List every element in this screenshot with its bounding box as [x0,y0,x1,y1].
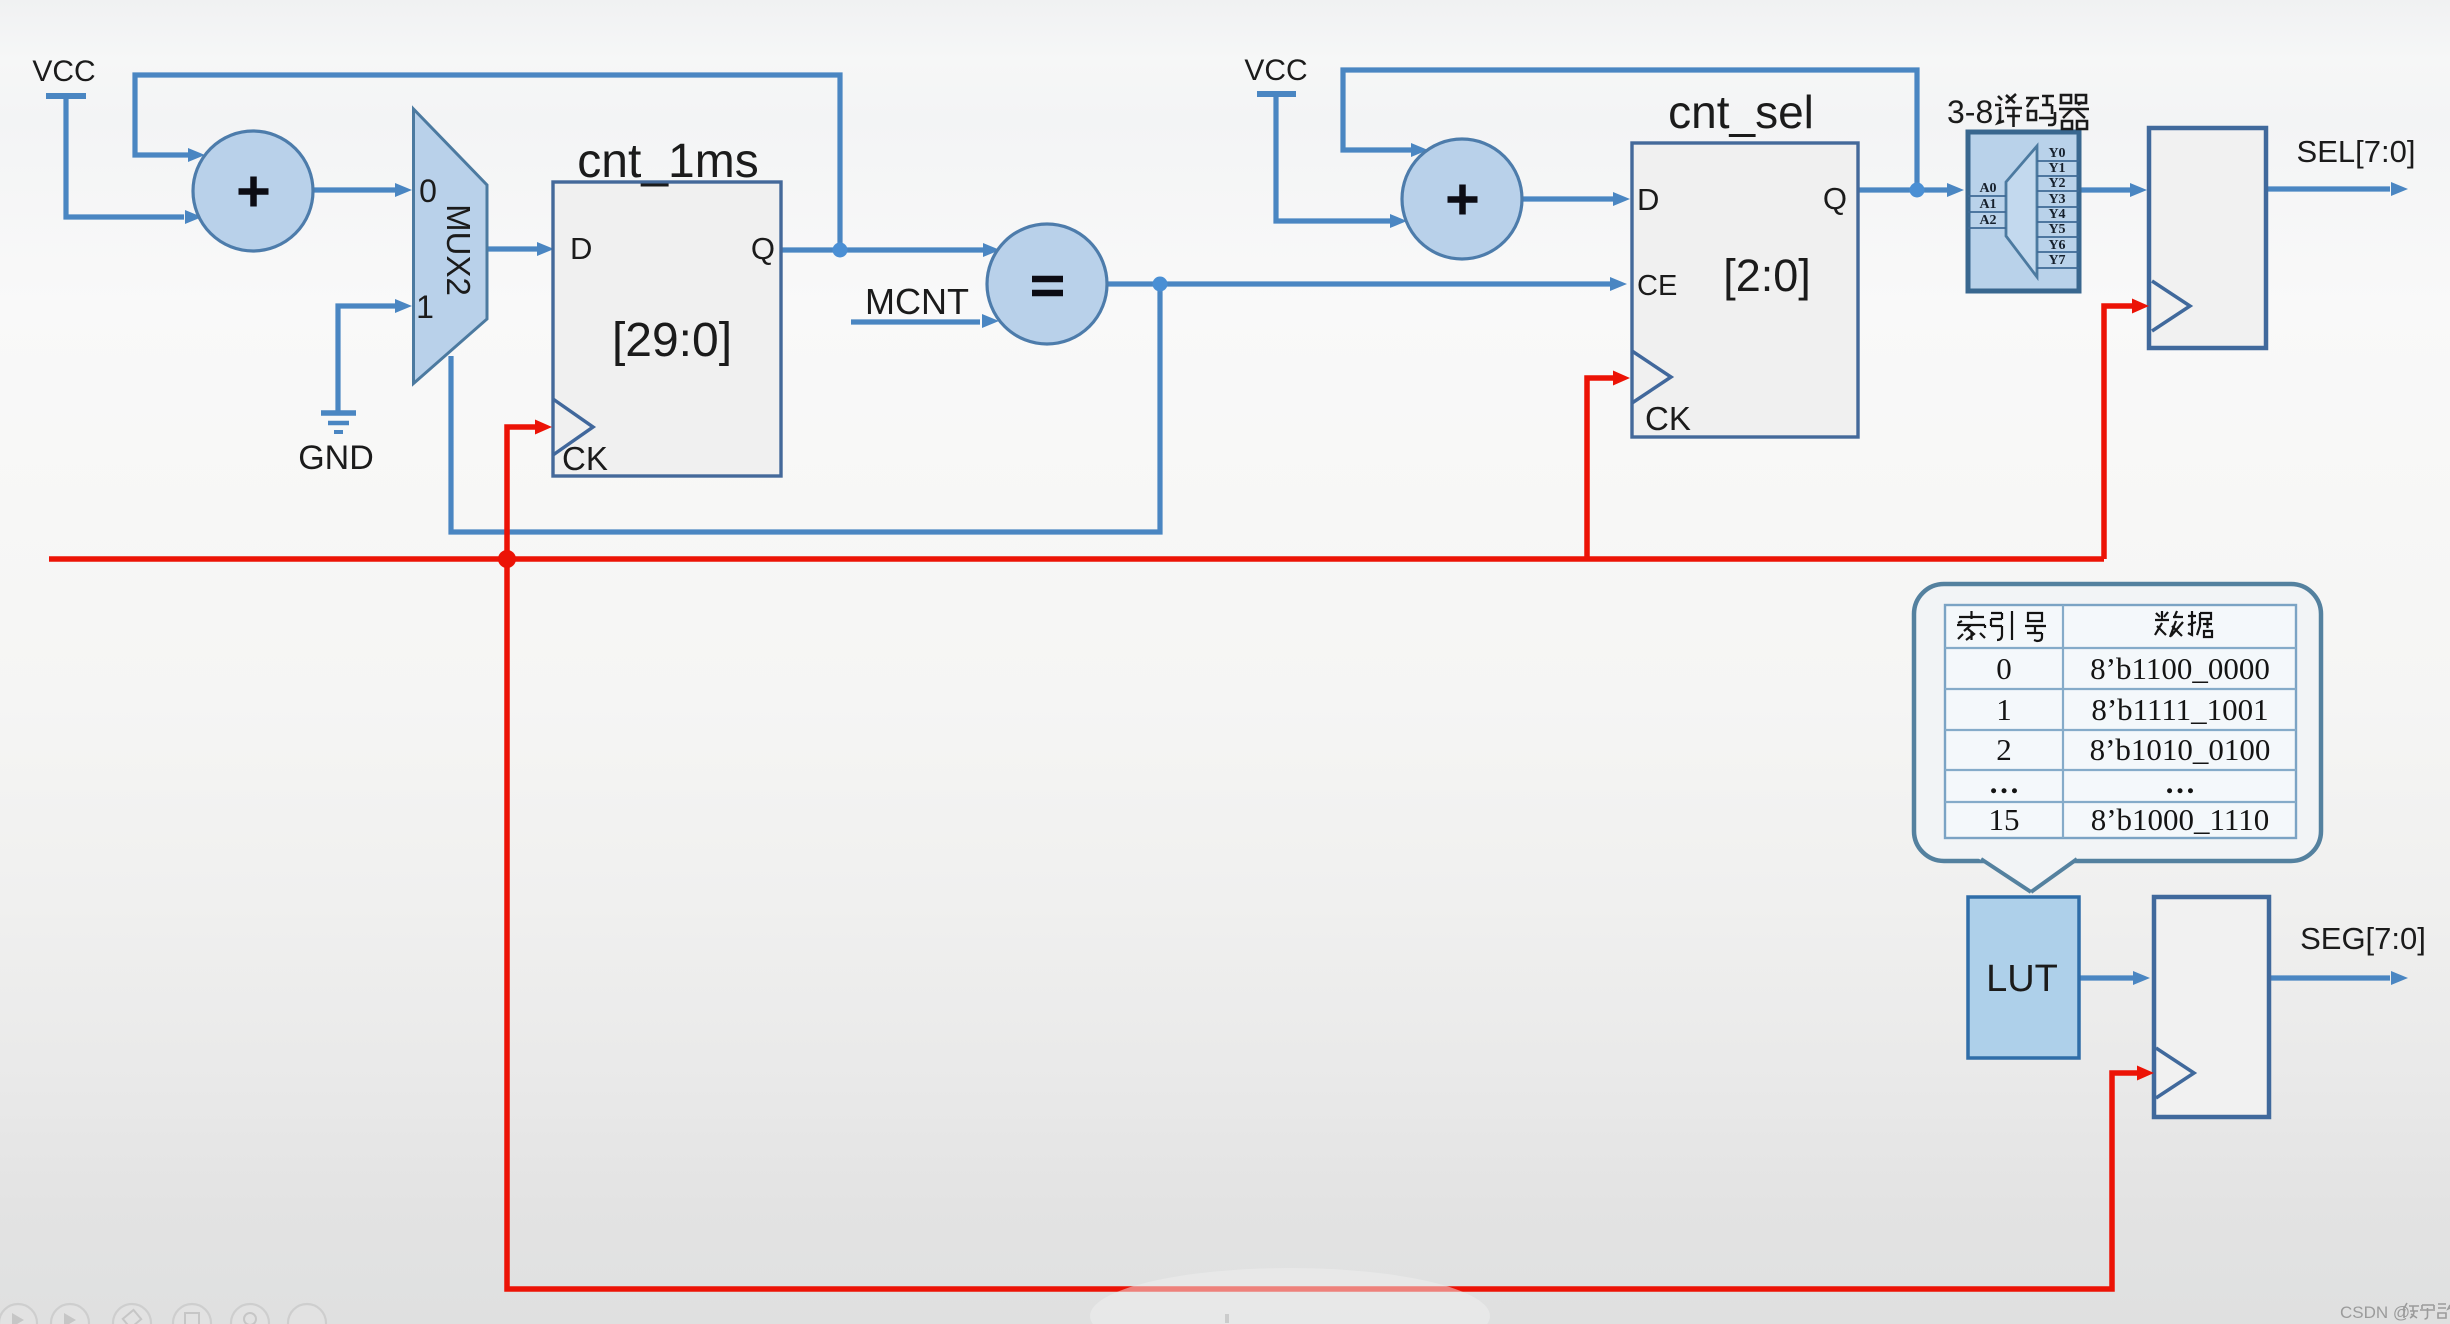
table data rows [1989,651,2271,837]
wire MCNT into comparator [851,319,980,324]
svg-text:CE: CE [1637,270,1677,302]
arrowhead into 3-8 decoder [1947,183,1964,197]
wire clock bottom loop to SEG register CK [507,559,2137,1289]
svg-text:VCC: VCC [1244,54,1307,87]
svg-text:8’b1100_0000: 8’b1100_0000 [2090,651,2270,686]
svg-text:SEG[7:0]: SEG[7:0] [2300,921,2426,956]
lookup table inside bubble [1945,605,2296,838]
svg-text:Q: Q [751,231,775,266]
adder A1 [193,131,313,251]
svg-text:CSDN @: CSDN @ [2340,1303,2410,1322]
svg-text:A2: A2 [1979,213,1996,228]
svg-text:[2:0]: [2:0] [1723,250,1811,301]
wire Q of cnt_sel to 3-8 decoder input [1858,187,1947,192]
svg-text:D: D [570,231,592,266]
arrowhead into adder A1 upper input [188,148,205,162]
svg-text:Y2: Y2 [2048,176,2065,191]
arrowhead into CK of SEG register [2137,1066,2154,1081]
hanzi yu3 (watermark) [2420,1305,2435,1319]
wire SEG register output [2269,975,2390,980]
svg-text:…: … [2165,765,2196,800]
junction node on comparator output [1153,277,1168,292]
svg-text:D: D [1637,182,1659,217]
svg-text:Y7: Y7 [2048,253,2065,268]
svg-text:MUX2: MUX2 [440,204,477,296]
clock wedge of SEL register [2152,281,2190,331]
arrowhead into CK of SEL register [2132,299,2149,314]
junction node on clock bus [498,550,516,568]
arrowhead MCNT into comparator lower input [982,314,999,328]
ground GND [298,413,374,477]
svg-text:cnt_sel: cnt_sel [1668,86,1814,138]
arrowhead into SEG register [2133,971,2150,985]
decoder 3-8 box [1968,132,2079,291]
wire feedback net: Q of cnt_sel up over top to adder A2 upper input [1343,70,1917,190]
wire comparator output to CE of cnt_sel [1107,281,1610,286]
svg-text:2: 2 [1996,732,2012,767]
decoder input pin lines A0 A1 A2 [1968,195,2006,197]
register SEL output [2149,128,2266,348]
hanzi yun4 (watermark) [2438,1304,2450,1318]
adder A2 [1402,139,1522,259]
arrowhead into MUX2 input 0 [395,183,412,197]
arrowhead into SEL register [2130,183,2147,197]
svg-text:CK: CK [562,440,608,477]
pin labels Y0-Y7 [2048,146,2065,268]
arrowhead SEG[7:0] output [2391,971,2408,985]
junction node on Q of cnt_sel [1910,183,1925,198]
svg-text:A0: A0 [1979,181,1996,196]
svg-text:Y6: Y6 [2048,238,2065,253]
svg-text:GND: GND [298,439,374,477]
power symbol VCC2 [1244,54,1307,94]
register cnt_sel [1632,86,1858,437]
svg-text:VCC: VCC [32,55,95,88]
hanzi yi4 (translate) [1995,94,2022,127]
arrowhead into D of cnt_1ms [537,242,554,256]
wire clock branch to cnt_sel CK [1587,378,1613,559]
svg-text:1: 1 [1996,692,2012,727]
svg-text:8’b1000_1110: 8’b1000_1110 [2091,802,2270,837]
wire VCC1 to adder A1 lower input [66,96,184,217]
svg-text:cnt_1ms: cnt_1ms [577,135,758,188]
wire adder A2 output to D of cnt_sel [1522,196,1613,201]
LUT block [1968,897,2079,1058]
callout bubble [1914,584,2321,892]
player control icons [0,1304,326,1324]
hanzi yi1 (watermark) [2403,1303,2419,1318]
wire clock branch to cnt_1ms CK [507,427,535,559]
arrowhead into D of cnt_sel [1613,192,1630,206]
svg-text:MCNT: MCNT [865,281,969,322]
arrowhead into comparator upper input [983,243,1000,257]
svg-text:…: … [1989,765,2020,800]
wire MUX2 output to D of cnt_1ms [488,246,538,251]
page mark [1225,1314,1229,1323]
wire adder A1 output to MUX2 input 0 [313,187,396,192]
svg-text:Y0: Y0 [2048,146,2065,161]
svg-text:3-8: 3-8 [1947,94,1993,130]
comparator = [987,224,1107,344]
hanzi qi4 (device) [2059,95,2089,129]
svg-text:Y1: Y1 [2048,161,2065,176]
svg-text:8’b1010_0100: 8’b1010_0100 [2090,732,2271,767]
label 3-8 decoder title [1947,94,2089,130]
register SEG output [2154,897,2269,1117]
svg-text:0: 0 [419,173,437,209]
wire Q of cnt_1ms to comparator input [781,247,985,252]
wire 3-8 decoder output to SEL register [2079,187,2131,192]
decoder inner trapezoid [2006,146,2037,277]
wire LUT output to SEG register [2079,975,2134,980]
wire SEL register output [2266,186,2390,191]
header hanzi shu4-ju4 (data) [2155,611,2212,637]
wire feedback net: Q of cnt_1ms up over top to adder A1 upper input [135,75,840,251]
header hanzi suo3-yin3-hao4 (index) [1957,611,2046,641]
watermark CSDN [2340,1303,2450,1322]
clock wedge of cnt_1ms [553,399,593,455]
decorative swirl [1090,1268,1490,1324]
svg-text:Y4: Y4 [2048,207,2065,222]
svg-text:A1: A1 [1979,197,1996,212]
svg-text:Y5: Y5 [2048,222,2065,237]
svg-text:[29:0]: [29:0] [612,314,732,367]
wire VCC2 to adder A2 lower input [1276,94,1391,221]
svg-text:SEL[7:0]: SEL[7:0] [2297,134,2416,169]
hanzi ma3 (code) [2026,96,2055,125]
mux MUX2 [414,109,488,384]
svg-text:LUT: LUT [1986,958,2058,1000]
svg-text:Y3: Y3 [2048,192,2065,207]
power symbol VCC1 [32,55,95,96]
decoder output pin lines Y0-Y7 [2037,161,2079,268]
wire comparator output feedback down and left to MUX2 select [451,284,1160,532]
wire clock branch up to SEL register CK [2104,306,2132,559]
wire clock bus main horizontal [49,556,2104,562]
svg-text:8’b1111_1001: 8’b1111_1001 [2091,692,2268,727]
wire GND to MUX2 input 1 [338,306,396,412]
arrowhead SEL[7:0] output [2391,182,2408,196]
svg-text:1: 1 [416,289,434,325]
svg-text:Q: Q [1823,181,1847,216]
svg-text:CK: CK [1645,400,1691,437]
arrowhead into CK of cnt_sel [1613,371,1630,386]
register cnt_1ms [553,135,781,477]
arrowhead into adder A2 upper input [1411,143,1428,157]
svg-text:0: 0 [1996,651,2012,686]
clock wedge of cnt_sel [1632,351,1671,403]
clock wedge of SEG register [2156,1048,2194,1098]
arrowhead into adder A1 lower input [185,210,202,224]
junction node on Q of cnt_1ms [833,243,848,258]
arrowhead into CK of cnt_1ms [535,420,552,435]
arrowhead into CE of cnt_sel [1610,277,1627,291]
svg-text:15: 15 [1989,802,2020,837]
arrowhead into MUX2 input 1 [395,299,412,313]
arrowhead into adder A2 lower input [1390,214,1407,228]
